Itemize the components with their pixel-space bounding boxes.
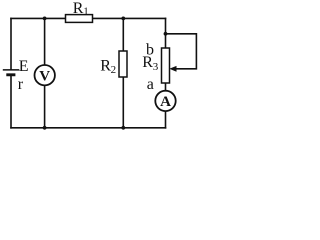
svg-text:3: 3 xyxy=(153,61,159,73)
svg-text:b: b xyxy=(146,41,154,58)
svg-text:R: R xyxy=(100,57,111,74)
wire left vertical xyxy=(10,18,12,127)
svg-text:R: R xyxy=(73,0,84,17)
wire voltmeter branch xyxy=(44,18,46,127)
resistor R1 xyxy=(66,0,93,22)
svg-text:A: A xyxy=(160,94,171,110)
ammeter A xyxy=(155,91,175,111)
svg-text:E: E xyxy=(19,58,29,75)
resistor R3 xyxy=(142,48,169,83)
node junction bottom R2 xyxy=(121,126,125,130)
resistor R2 xyxy=(100,51,127,77)
wire bottom horizontal xyxy=(11,127,166,129)
node junction wiper xyxy=(164,32,168,36)
svg-text:r: r xyxy=(18,76,24,93)
wire R3 branch right side xyxy=(165,18,167,127)
wiper arrow xyxy=(169,66,176,72)
wire wiper loop xyxy=(166,34,197,69)
wire top horizontal xyxy=(11,17,166,19)
wire R2 branch xyxy=(122,18,124,127)
battery E xyxy=(3,58,29,93)
voltmeter V xyxy=(35,65,55,85)
node junction top V xyxy=(43,17,47,21)
node junction top R2 xyxy=(121,17,125,21)
node junction bottom V xyxy=(43,126,47,130)
svg-text:2: 2 xyxy=(111,64,117,76)
svg-text:1: 1 xyxy=(83,6,89,18)
svg-text:V: V xyxy=(39,68,50,84)
svg-text:a: a xyxy=(147,76,154,93)
